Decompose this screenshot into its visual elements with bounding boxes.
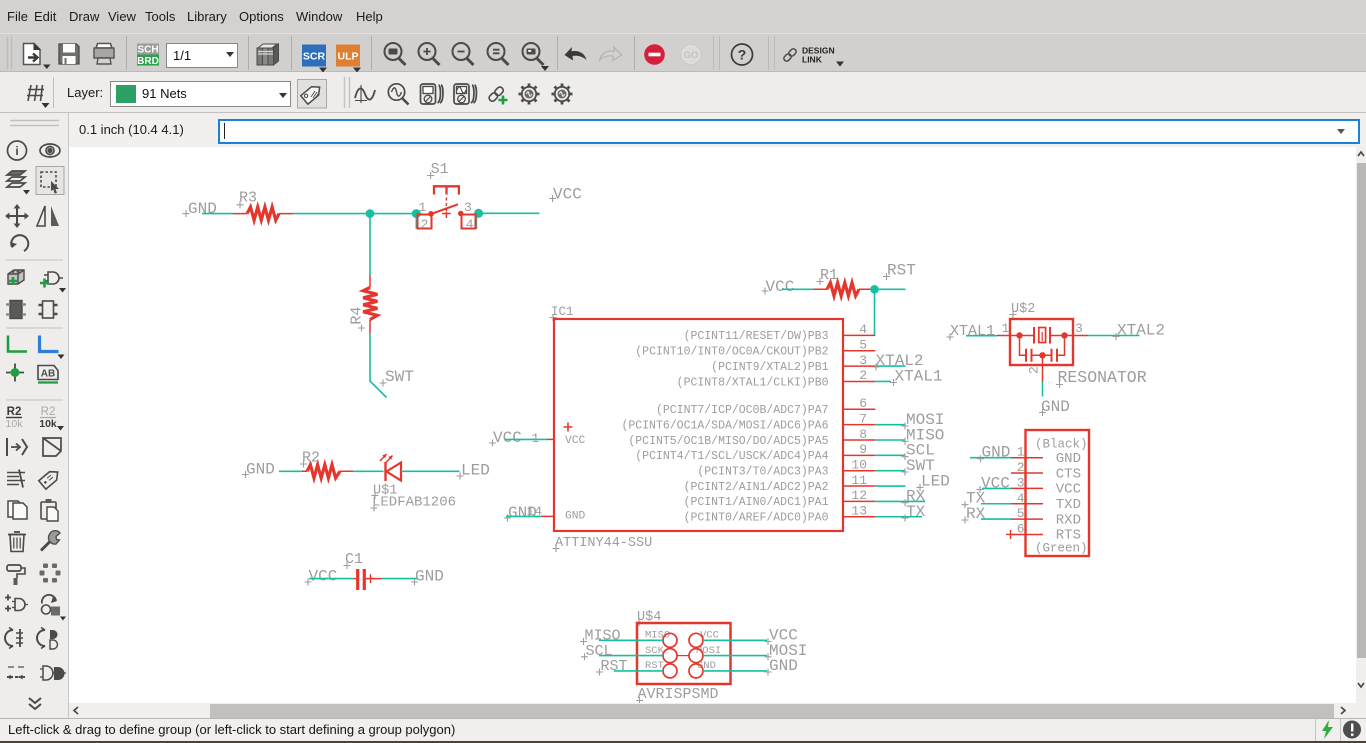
stop	[644, 44, 665, 65]
multimeter icon 1	[421, 84, 443, 104]
svg-text:GND: GND	[1056, 451, 1081, 467]
svg-text:XTAL1: XTAL1	[950, 323, 995, 340]
svg-text:RX: RX	[966, 505, 986, 523]
svg-text:(PCINT10/INT0/OC0A/CKOUT)PB2: (PCINT10/INT0/OC0A/CKOUT)PB2	[635, 346, 828, 359]
svg-text:(PCINT7/ICP/OC0B/ADC7)PA7: (PCINT7/ICP/OC0B/ADC7)PA7	[656, 404, 829, 417]
display layers	[7, 171, 30, 195]
canvas with schematic	[69, 147, 1356, 703]
bus tool	[40, 336, 65, 360]
SCH/BRD icon	[137, 44, 159, 68]
net label GND + wire (right)	[703, 657, 798, 676]
svg-text:AB: AB	[41, 369, 55, 380]
wire VCC to C1	[309, 578, 353, 580]
resonator pin numbers 1 3 2	[1002, 321, 1083, 374]
command row	[0, 113, 1366, 147]
pinswap	[5, 628, 23, 649]
FTDI label (Black)	[1035, 438, 1088, 452]
svg-text:RXD: RXD	[1056, 512, 1081, 528]
value RESONATOR	[1056, 368, 1147, 388]
value tool	[39, 406, 64, 431]
name R3	[237, 190, 258, 209]
svg-text:AVRISPSMD: AVRISPSMD	[638, 686, 719, 703]
IC1 pin names	[621, 330, 828, 524]
svg-text:3: 3	[1017, 475, 1025, 490]
paste	[41, 499, 58, 521]
resonator pin 2 wire	[1042, 355, 1044, 396]
wire GND to R3	[202, 213, 233, 215]
svg-text:RESONATOR: RESONATOR	[1058, 368, 1147, 387]
invoke	[7, 438, 27, 456]
svg-text:R2: R2	[7, 406, 22, 418]
wire R3 to S1	[293, 213, 416, 215]
svg-text:VCC: VCC	[1056, 482, 1081, 498]
wire R4 to SWT	[370, 334, 387, 398]
net tool	[8, 336, 27, 352]
net label RST	[883, 262, 916, 281]
junction RST	[870, 285, 879, 294]
toolbar row 2	[0, 72, 1366, 113]
FTDI pin numbers 1-6	[1017, 445, 1025, 537]
svg-text:LEDFAB1206: LEDFAB1206	[372, 495, 456, 511]
zoom fit	[385, 43, 406, 65]
name R2	[300, 450, 320, 468]
sine icon	[355, 85, 375, 103]
svg-text:VCC: VCC	[565, 435, 586, 447]
multimeter icon 2	[454, 84, 476, 104]
svg-text:(PCINT0/AREF/ADC0)PA0: (PCINT0/AREF/ADC0)PA0	[684, 512, 829, 525]
wire + net label MOSI at PA6	[875, 411, 944, 430]
net label MISO + wire	[580, 628, 663, 646]
library books icon	[257, 44, 279, 65]
left sidebar	[0, 113, 69, 718]
group select (pressed)	[36, 167, 64, 195]
svg-text:7: 7	[859, 411, 867, 426]
value ATTINY44-SSU	[553, 536, 653, 552]
resistor R1	[814, 283, 871, 296]
replace	[42, 595, 67, 621]
svg-text:?: ?	[738, 47, 747, 63]
resistor R2	[302, 465, 353, 478]
help	[732, 44, 753, 65]
svg-text:LINK: LINK	[802, 55, 823, 65]
wire + net label MISO at PA5	[875, 426, 944, 445]
chevron down	[29, 698, 41, 709]
net label VCC + wire at FTDI pin 3	[977, 475, 1012, 494]
svg-text:GO: GO	[684, 50, 699, 61]
net label XTAL1 + wire (left of resonator)	[947, 323, 998, 341]
svg-text:RST: RST	[887, 262, 916, 280]
net label GND (right of C1)	[411, 568, 444, 586]
svg-text:BRD: BRD	[137, 56, 159, 67]
svg-text:(PCINT2/AIN1/ADC2)PA2: (PCINT2/AIN1/ADC2)PA2	[684, 481, 829, 494]
smd filled	[6, 301, 26, 319]
svg-text:(PCINT9/XTAL2)PB1: (PCINT9/XTAL2)PB1	[711, 361, 828, 374]
svg-text:ULP: ULP	[338, 51, 359, 63]
svg-text:4: 4	[859, 322, 867, 337]
switch S1	[412, 186, 483, 228]
svg-text:1: 1	[1017, 445, 1025, 460]
wire junction to RST label	[878, 288, 906, 290]
wire + net label RX at PA1	[875, 488, 925, 507]
label tool	[38, 366, 58, 383]
svg-text:RST: RST	[601, 658, 628, 675]
resonator U$2 body	[1010, 319, 1073, 365]
svg-text:(PCINT1/AIN0/ADC1)PA1: (PCINT1/AIN0/ADC1)PA1	[684, 496, 829, 509]
svg-text:3: 3	[1075, 321, 1083, 336]
print icon	[94, 44, 114, 65]
separators	[6, 260, 63, 400]
grid icon	[27, 85, 50, 108]
wire + net label LED at PA2	[875, 472, 950, 491]
net label GND (left of R3)	[183, 200, 217, 218]
svg-text:5: 5	[1017, 506, 1025, 521]
name U$4	[636, 610, 662, 626]
wire C1 to GND	[382, 578, 417, 580]
separators	[127, 36, 775, 70]
net label GND + wire at FTDI pin 1	[970, 444, 1011, 463]
junction	[6, 364, 24, 382]
wire R2 to LED	[353, 470, 384, 472]
add part	[8, 270, 24, 285]
wire S1 to VCC	[479, 212, 540, 214]
svg-text:GND: GND	[415, 568, 444, 586]
S1 pin numbers 1 2 3 4	[419, 200, 474, 232]
svg-text:(PCINT8/XTAL1/CLKI)PB0: (PCINT8/XTAL1/CLKI)PB0	[677, 376, 829, 389]
net label XTAL2 + wire (right of resonator)	[1088, 322, 1165, 341]
open file icon	[24, 44, 51, 70]
trash	[8, 532, 26, 552]
wire + net label SWT at PA3	[875, 457, 935, 476]
svg-text:10: 10	[851, 458, 867, 473]
svg-text:VCC: VCC	[553, 186, 582, 204]
svg-text:9: 9	[859, 442, 867, 457]
IC1 right pin numbers	[851, 322, 867, 518]
zoom in	[419, 43, 440, 65]
svg-text:1: 1	[1002, 321, 1010, 336]
svg-text:6: 6	[1017, 521, 1025, 536]
net label VCC (left of C1)	[305, 568, 338, 586]
svg-text:2: 2	[421, 217, 429, 232]
name R4 (rotated)	[349, 307, 366, 332]
toolbar row 1	[0, 33, 1366, 72]
svg-text:3: 3	[464, 200, 472, 215]
svg-text:13: 13	[851, 504, 867, 519]
net label SWT	[380, 368, 414, 387]
U$4 pads	[663, 633, 703, 678]
svg-text:12: 12	[851, 488, 867, 503]
net label RST + wire	[596, 658, 663, 676]
IC1 pin 1 VCC	[532, 423, 586, 448]
polygon	[43, 438, 61, 456]
wire + net label SCL at PA4	[875, 442, 935, 461]
name U$1	[372, 484, 398, 500]
magnifier sine	[388, 84, 408, 105]
smd outline	[39, 301, 58, 318]
resistor R4	[363, 276, 377, 334]
svg-text:(PCINT3/T0/ADC3)PA3: (PCINT3/T0/ADC3)PA3	[697, 466, 828, 479]
svg-text:5: 5	[859, 338, 867, 353]
FTDI header body	[1026, 430, 1090, 556]
svg-text:CTS: CTS	[1056, 466, 1081, 482]
svg-text:6: 6	[859, 396, 867, 411]
mirror	[37, 206, 59, 226]
svg-text:VCC: VCC	[493, 429, 522, 447]
wire + net label TX at PA0	[875, 503, 925, 522]
svg-text:14: 14	[527, 504, 543, 519]
net label GND (below resonator)	[1039, 398, 1070, 416]
svg-text:GND: GND	[1041, 398, 1070, 416]
wrench	[41, 531, 60, 551]
svg-text:10k: 10k	[39, 418, 57, 430]
FTDI pin 6 open end marker	[1006, 530, 1015, 539]
net label VCC (left of R1)	[762, 278, 795, 296]
svg-text:(PCINT6/OC1A/SDA/MOSI/ADC6)PA6: (PCINT6/OC1A/SDA/MOSI/ADC6)PA6	[621, 420, 828, 433]
IC1 ATTINY44 body	[554, 319, 843, 531]
svg-text:11: 11	[851, 473, 867, 488]
net label RX + wire at FTDI pin 5	[962, 505, 1012, 524]
name S1	[427, 161, 449, 179]
svg-text:TX: TX	[906, 503, 926, 521]
zoom redraw	[488, 43, 509, 65]
link plus icon	[488, 86, 508, 105]
U$4 inner pin names	[645, 630, 721, 673]
tag2	[39, 468, 61, 489]
paint roller	[7, 565, 25, 585]
svg-text:RTS: RTS	[1056, 528, 1081, 544]
IC1 right pin stubs	[843, 335, 875, 516]
junction at R4 branch	[366, 209, 375, 218]
svg-text:i: i	[15, 144, 18, 158]
svg-text:1: 1	[532, 431, 540, 446]
svg-text:(PCINT11/RESET/DW)PB3: (PCINT11/RESET/DW)PB3	[684, 330, 829, 343]
name U$2	[1010, 302, 1036, 318]
rotate	[10, 235, 28, 251]
net label VCC (right of S1)	[549, 186, 582, 204]
wire VCC to R1	[782, 288, 814, 290]
wire RST to pin 4	[874, 289, 876, 335]
wire LED to label	[401, 470, 460, 472]
SCR icon	[302, 45, 327, 73]
svg-text:GND: GND	[246, 461, 275, 479]
name R1	[817, 267, 839, 285]
FTDI pin stubs	[1011, 458, 1043, 535]
scrollbars	[1356, 147, 1366, 703]
svg-text:R2: R2	[41, 406, 56, 418]
add gate	[40, 272, 66, 293]
net label VCC + wire (right)	[703, 627, 798, 646]
undo	[565, 47, 587, 61]
wire GND to R2	[279, 470, 302, 472]
svg-text:4: 4	[466, 217, 474, 232]
net label SCL + wire	[581, 643, 663, 661]
svg-text:LED: LED	[461, 462, 490, 480]
svg-text:R4: R4	[349, 307, 366, 325]
meet	[7, 667, 25, 680]
ULP icon	[336, 45, 361, 73]
add next gate	[5, 595, 28, 612]
net label GND (left of R2)	[242, 461, 275, 479]
net label TX + wire at FTDI pin 4	[962, 490, 1012, 509]
svg-text:4: 4	[1017, 491, 1025, 506]
zoom select	[523, 43, 550, 71]
svg-text:GND: GND	[769, 657, 798, 675]
svg-text:3: 3	[859, 353, 867, 368]
status bar	[0, 718, 1366, 741]
ISP header U$4 body	[637, 623, 731, 684]
svg-text:SCR: SCR	[303, 51, 326, 63]
svg-text:GND: GND	[982, 444, 1011, 462]
tag button pressed	[298, 80, 327, 109]
svg-text:XTAL1: XTAL1	[895, 368, 943, 386]
svg-text:2: 2	[1027, 366, 1042, 374]
redo (disabled)	[600, 47, 622, 61]
capacitor C1	[353, 569, 382, 590]
svg-text:LED: LED	[921, 472, 950, 490]
IC1 pin 14 GND	[527, 504, 586, 523]
ratsnest	[40, 564, 61, 583]
gear 1	[519, 84, 540, 105]
wire + net label XTAL2 at PB1	[873, 352, 924, 371]
info	[8, 141, 27, 160]
FTDI pin names	[1056, 451, 1081, 544]
LED U$1	[380, 454, 401, 481]
svg-text:SCH: SCH	[137, 45, 158, 56]
gateswap	[37, 628, 58, 650]
resistor R3	[233, 207, 293, 220]
wire + net label XTAL1 at PB0	[875, 368, 942, 387]
svg-text:10k: 10k	[6, 418, 24, 430]
value LEDFAB1206	[371, 495, 457, 512]
svg-text:GND: GND	[188, 200, 217, 218]
name C1	[344, 551, 364, 569]
net label LED	[457, 462, 490, 480]
svg-text:IC1: IC1	[551, 305, 574, 319]
svg-text:(Black): (Black)	[1035, 438, 1088, 452]
save icon	[59, 44, 79, 64]
net label GND + wire at IC1 pin 14	[504, 504, 541, 522]
svg-text:VCC: VCC	[766, 278, 795, 296]
svg-text:2: 2	[1017, 460, 1025, 475]
connect	[40, 666, 66, 680]
svg-text:R3: R3	[239, 190, 257, 207]
name IC1	[550, 305, 574, 321]
zoom out	[453, 43, 474, 65]
svg-text:TXD: TXD	[1056, 497, 1081, 513]
value AVRISPSMD	[636, 686, 719, 704]
split	[7, 470, 25, 488]
resonator internals	[997, 327, 1088, 362]
wire junction to R4	[369, 214, 371, 276]
design link	[783, 46, 844, 67]
menu bar	[0, 0, 1366, 33]
grip	[10, 121, 59, 126]
svg-text:1: 1	[419, 200, 427, 215]
net label VCC + wire at IC1 pin 1	[489, 429, 547, 447]
svg-text:VCC: VCC	[981, 475, 1010, 493]
svg-text:SWT: SWT	[385, 368, 414, 386]
svg-text:XTAL2: XTAL2	[1117, 322, 1165, 340]
svg-text:(PCINT5/OC1B/MISO/DO/ADC5)PA5: (PCINT5/OC1B/MISO/DO/ADC5)PA5	[628, 435, 828, 448]
svg-text:(PCINT4/T1/SCL/USCK/ADC4)PA4: (PCINT4/T1/SCL/USCK/ADC4)PA4	[635, 450, 828, 463]
grip	[8, 37, 12, 69]
svg-text:GND: GND	[565, 511, 586, 523]
go (disabled)	[681, 44, 702, 65]
svg-text:ATTINY44-SSU: ATTINY44-SSU	[555, 536, 652, 551]
svg-text:2: 2	[859, 368, 867, 383]
svg-text:8: 8	[859, 427, 867, 442]
FTDI label (Green)	[1035, 542, 1088, 556]
eye	[40, 144, 60, 157]
net label MOSI + wire (right)	[703, 642, 807, 661]
svg-text:VCC: VCC	[309, 568, 338, 586]
copy	[8, 501, 27, 519]
move	[5, 204, 29, 228]
gear 2	[552, 84, 573, 105]
name tool	[6, 406, 24, 430]
